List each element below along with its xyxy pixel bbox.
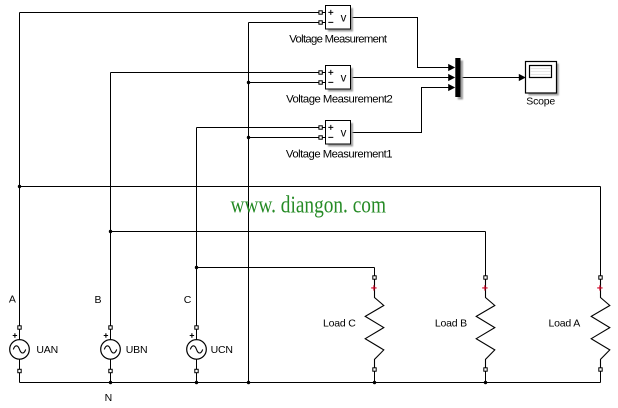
- pin Load B bottom port square: [484, 368, 487, 371]
- svg-text:Voltage Measurement: Voltage Measurement: [289, 33, 388, 45]
- svg-text:C: C: [184, 294, 192, 306]
- wire UBN bottom stub: [110, 359, 112, 382]
- resistor Load B: [476, 279, 495, 368]
- junction node A: [18, 185, 21, 188]
- wire VM1 output to mux: [351, 18, 450, 68]
- junction Load C at bus: [373, 381, 376, 384]
- svg-text:Load C: Load C: [323, 318, 356, 330]
- arrowhead mux input 1: [448, 64, 455, 71]
- wire UAN bottom stub: [19, 359, 21, 382]
- wire Load B bottom stub: [485, 371, 487, 382]
- svg-text:Scope: Scope: [526, 96, 555, 108]
- voltage measurement block U3: [326, 121, 354, 147]
- svg-text:N: N: [105, 392, 112, 404]
- svg-text:B: B: [95, 294, 102, 306]
- wire UCN bottom stub: [196, 359, 198, 382]
- wire node C branch to Load C: [197, 267, 375, 269]
- junction neutral at VM2 -: [247, 81, 250, 84]
- pin - U3 port square: [319, 136, 322, 139]
- pin - U2 port square: [319, 81, 322, 84]
- wire UBN top stub: [110, 329, 112, 339]
- wire phase B vertical: [110, 73, 112, 327]
- svg-text:Voltage Measurement1: Voltage Measurement1: [286, 148, 392, 160]
- wire Load A bottom stub: [600, 371, 602, 382]
- pin + U2 port square: [319, 71, 322, 74]
- arrowhead mux input 2: [448, 74, 455, 81]
- voltage measurement block U1: [326, 6, 354, 32]
- pin Load A bottom port square: [599, 368, 602, 371]
- pin - U1 port square: [319, 21, 322, 24]
- wire VM2 port stubs: [322, 73, 326, 83]
- pin UBN bottom port square: [109, 369, 112, 372]
- AC source UAN: [10, 333, 30, 359]
- arrowhead scope input: [519, 74, 526, 81]
- wire VM3 output to mux: [351, 88, 450, 133]
- svg-text:v: v: [341, 127, 347, 139]
- wire VM2 output to mux: [351, 77, 450, 79]
- junction Load B at bus: [484, 381, 487, 384]
- junction node B: [109, 230, 112, 233]
- junction UCN at bus: [195, 381, 198, 384]
- wire VM3 port stubs: [322, 128, 326, 138]
- wire Load B drop vertical: [485, 232, 487, 276]
- junction UBN at bus: [109, 381, 112, 384]
- pin Load A top port square: [599, 276, 602, 279]
- junction neutral at VM3 -: [247, 136, 250, 139]
- junction node C: [195, 266, 198, 269]
- wire phase A vertical: [19, 13, 21, 327]
- AC source UCN: [187, 333, 207, 359]
- svg-text:Load B: Load B: [435, 318, 467, 330]
- resistor Load A: [591, 279, 610, 368]
- pin UBN top port square: [109, 326, 112, 329]
- wire Load C drop vertical: [374, 268, 376, 276]
- pin UCN bottom port square: [195, 369, 198, 372]
- pin UAN top port square: [18, 326, 21, 329]
- pin + U3 port square: [319, 126, 322, 129]
- pin Load C top port square: [373, 276, 376, 279]
- svg-text:UAN: UAN: [36, 344, 58, 356]
- wire mux output to scope: [461, 77, 519, 79]
- svg-text:v: v: [341, 72, 347, 84]
- scope block: [526, 62, 559, 96]
- svg-text:A: A: [9, 294, 16, 306]
- svg-text:UCN: UCN: [211, 344, 233, 356]
- wire phase B horizontal to VM2 +: [111, 72, 320, 74]
- svg-text:v: v: [341, 12, 347, 24]
- svg-text:UBN: UBN: [126, 344, 148, 356]
- svg-text:Voltage Measurement2: Voltage Measurement2: [286, 93, 392, 105]
- resistor Load C: [365, 279, 384, 368]
- pin Load B top port square: [484, 276, 487, 279]
- pin UAN bottom port square: [18, 369, 21, 372]
- AC source UBN: [101, 333, 121, 359]
- wire UCN top stub: [196, 329, 198, 339]
- svg-text:www. diangon. com: www. diangon. com: [231, 193, 387, 219]
- svg-text:Load A: Load A: [549, 318, 581, 330]
- wire neutral VM3 - horizontal: [249, 137, 320, 139]
- arrowhead mux input 3: [448, 84, 455, 91]
- wire node A branch to Load A: [20, 186, 601, 188]
- pin Load C bottom port square: [373, 368, 376, 371]
- wire VM1 port stubs: [322, 13, 326, 23]
- wire node B branch to Load B: [111, 231, 486, 233]
- wire neutral VM1 - horizontal: [249, 22, 320, 24]
- wire phase C vertical: [196, 128, 198, 327]
- wire UAN top stub: [19, 329, 21, 339]
- wire Load C bottom stub: [374, 371, 376, 382]
- junction neutral at bus: [247, 381, 250, 384]
- wire Load A drop vertical: [600, 187, 602, 276]
- wire phase C horizontal to VM3 +: [197, 127, 320, 129]
- wire neutral VM2 - horizontal: [249, 82, 320, 84]
- voltage measurement block U2: [326, 66, 354, 92]
- pin + U1 port square: [319, 11, 322, 14]
- pin UCN top port square: [195, 326, 198, 329]
- wire neutral vertical N: [248, 23, 250, 383]
- mux block: [458, 61, 463, 100]
- wire phase A top horizontal to VM1 +: [20, 12, 320, 14]
- wire bottom neutral bus: [20, 382, 601, 384]
